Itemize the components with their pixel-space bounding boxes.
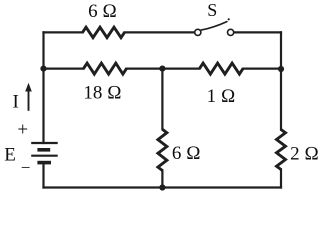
svg-text:6 Ω: 6 Ω	[172, 143, 201, 164]
svg-text:6 Ω: 6 Ω	[88, 1, 117, 22]
svg-text:2 Ω: 2 Ω	[290, 143, 319, 164]
svg-text:S: S	[207, 0, 217, 20]
svg-text:18 Ω: 18 Ω	[83, 83, 121, 104]
svg-text:+: +	[17, 120, 28, 141]
svg-text:E: E	[4, 144, 16, 165]
svg-text:1 Ω: 1 Ω	[207, 86, 236, 107]
svg-text:−: −	[21, 158, 31, 177]
svg-text:I: I	[13, 92, 19, 113]
